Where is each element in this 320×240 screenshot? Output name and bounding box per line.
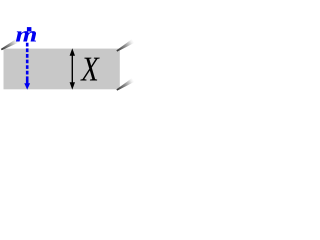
fade mark top-right corner — [116, 39, 134, 52]
dimension arrow for X (double-headed, vertical) — [70, 48, 75, 90]
fade mark bottom-right corner — [116, 78, 134, 91]
trajectory arrowhead (blue, pointing down at slab bottom) — [24, 80, 30, 90]
trajectory dashed line (blue) — [26, 43, 29, 80]
slab of thickness X — [4, 49, 120, 90]
mass m (blue square) — [27, 27, 32, 31]
svg-text:m: m — [15, 22, 37, 47]
svg-text:X: X — [80, 50, 101, 89]
fade mark top-left corner — [1, 38, 19, 50]
